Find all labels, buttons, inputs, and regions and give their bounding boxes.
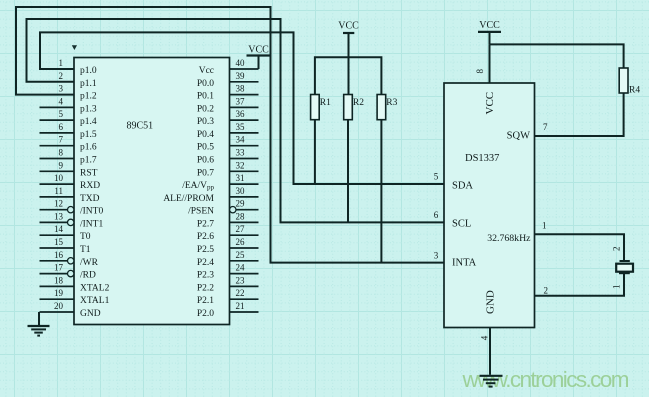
svg-text:26: 26 [236,237,246,247]
svg-text:20: 20 [54,301,64,311]
svg-text:3: 3 [59,84,64,94]
svg-text:37: 37 [236,96,246,106]
pin 37 wire (P0.2) [230,106,259,108]
svg-text:/RD: /RD [80,271,96,281]
pin 39 wire (P0.0) [230,81,259,83]
svg-text:16: 16 [54,250,64,260]
svg-text:4: 4 [480,335,490,340]
svg-text:RXD: RXD [80,181,100,191]
svg-text:3: 3 [434,251,439,261]
svg-text:P2.6: P2.6 [197,232,214,242]
svg-text:p1.3: p1.3 [80,104,97,114]
wire VCC rail [315,57,382,94]
svg-text:TXD: TXD [80,194,100,204]
pin 2 wire to crystal [535,273,625,295]
ground (DS1337 pin 4) [480,375,503,377]
svg-text:15: 15 [54,237,64,247]
pin 38 wire (P0.1) [230,94,259,96]
pin 36 wire (P0.3) [230,119,259,121]
svg-text:1: 1 [59,58,64,68]
svg-text:/EA/Vpp: /EA/Vpp [182,181,214,192]
svg-text:21: 21 [236,301,245,311]
svg-text:11: 11 [54,186,63,196]
pin 15 wire (T1) [40,247,75,249]
svg-text:p1.7: p1.7 [80,156,97,166]
svg-text:17: 17 [54,263,64,273]
ground (89C51 GND pin 20) [38,312,40,326]
svg-text:7: 7 [543,122,548,132]
svg-text:P2.2: P2.2 [197,283,214,293]
svg-text:p1.5: p1.5 [80,130,97,140]
pin 40 wire (Vcc) [230,68,259,70]
svg-text:24: 24 [236,263,246,273]
svg-text:Vcc: Vcc [199,66,214,76]
svg-text:19: 19 [54,288,64,298]
svg-text:P2.5: P2.5 [197,245,214,255]
svg-text:R2: R2 [353,98,364,108]
pin 25 wire (P2.4) [230,260,259,262]
svg-text:10: 10 [54,173,64,183]
pin 33 wire (P0.6) [230,158,259,160]
svg-text:2: 2 [612,247,622,252]
svg-text:P0.7: P0.7 [197,168,214,178]
svg-text:p1.4: p1.4 [80,117,97,127]
svg-text:39: 39 [236,71,246,81]
pin 13 wire (/INT1) [40,221,68,223]
svg-text:VCC: VCC [248,45,269,56]
pin 10 wire (RXD) [40,183,75,185]
svg-text:25: 25 [236,250,246,260]
svg-text:30: 30 [236,186,246,196]
pin 20 wire (GND) [40,311,75,313]
svg-text:5: 5 [59,109,64,119]
resistor R4 [619,68,628,93]
pin 8 wire (VCC top) [489,44,491,83]
pin 5 wire (p1.4) [40,119,75,121]
svg-text:9: 9 [59,160,64,170]
svg-text:p1.2: p1.2 [80,92,97,102]
svg-text:8: 8 [475,69,485,74]
pin 27 wire (P2.6) [230,234,259,236]
svg-text:33: 33 [236,148,246,158]
wire VCC to R4 [490,44,624,68]
pin 12 wire (/INT0) [40,209,68,211]
svg-text:P0.0: P0.0 [197,79,214,89]
pin 22 wire (P2.1) [230,298,259,300]
svg-text:28: 28 [236,211,246,221]
pin 9 wire (RST) [40,170,75,172]
svg-text:2: 2 [59,71,64,81]
svg-text:SQW: SQW [507,131,530,142]
svg-text:VCC: VCC [484,92,496,115]
wire R1 lead [314,120,316,184]
svg-text:P0.4: P0.4 [197,130,214,140]
svg-text:VCC: VCC [479,20,500,31]
svg-text:RST: RST [80,168,98,178]
wire p1.1 to SCL [27,19,445,222]
pin 11 wire (TXD) [40,196,75,198]
svg-text:R3: R3 [386,98,397,108]
pin 17 wire (/RD) [40,273,68,275]
svg-text:XTAL1: XTAL1 [80,296,110,306]
svg-text:13: 13 [54,211,64,221]
svg-text:31: 31 [236,173,245,183]
pin 21 wire (P2.0) [230,311,259,313]
svg-text:40: 40 [236,58,246,68]
svg-text:/INT1: /INT1 [80,219,103,229]
pin 4 wire (GND bottom) [489,328,491,375]
svg-text:T0: T0 [80,232,91,242]
pin 29 wire (/PSEN) [236,209,258,211]
svg-text:p1.6: p1.6 [80,143,97,153]
svg-text:12: 12 [54,199,63,209]
pin 23 wire (P2.2) [230,285,259,287]
svg-text:P0.3: P0.3 [197,117,214,127]
svg-text:35: 35 [236,122,246,132]
svg-text:32: 32 [236,160,245,170]
pin 7 wire SQW to R4 [535,93,624,136]
svg-text:27: 27 [236,224,246,234]
svg-text:P0.1: P0.1 [197,92,214,102]
svg-text:p1.0: p1.0 [80,66,97,76]
svg-text:R4: R4 [629,86,640,96]
svg-text:XTAL2: XTAL2 [80,283,110,293]
pin 8 wire (p1.7) [40,158,75,160]
svg-text:P0.2: P0.2 [197,104,214,114]
pin 16 wire (/WR) [40,260,68,262]
svg-text:P2.7: P2.7 [197,219,214,229]
svg-text:14: 14 [54,224,64,234]
pin 19 wire (XTAL1) [40,298,75,300]
svg-text:SCL: SCL [452,219,471,230]
svg-text:P2.0: P2.0 [197,309,214,319]
svg-text:29: 29 [236,199,246,209]
svg-text:/PSEN: /PSEN [188,207,214,217]
pin 4 wire (p1.3) [40,106,75,108]
svg-text:GND: GND [80,309,101,319]
svg-text:18: 18 [54,275,64,285]
svg-text:p1.1: p1.1 [80,79,97,89]
svg-text:DS1337: DS1337 [465,153,499,164]
pin 26 wire (P2.5) [230,247,259,249]
svg-text:R1: R1 [320,98,331,108]
svg-text:SDA: SDA [452,181,473,192]
svg-text:P2.3: P2.3 [197,271,214,281]
wire R2 lead [347,120,349,223]
svg-text:2: 2 [544,286,549,296]
pin 35 wire (P0.4) [230,132,259,134]
pin 1 wire to crystal [535,234,625,260]
svg-text:P2.1: P2.1 [197,296,214,306]
pin 32 wire (P0.7) [230,170,259,172]
pin 28 wire (P2.7) [230,221,259,223]
wire R3 lead [380,120,382,263]
pin 30 wire (ALE//PROM) [230,196,259,198]
svg-text:1: 1 [612,285,622,290]
svg-text:P2.4: P2.4 [197,258,214,268]
resistor R1 [311,95,320,120]
pin 6 wire (p1.5) [40,132,75,134]
pin 14 wire (T0) [40,234,75,236]
svg-text:P0.6: P0.6 [197,156,214,166]
svg-text:ALE//PROM: ALE//PROM [163,194,214,204]
svg-text:/WR: /WR [80,258,99,268]
svg-text:6: 6 [434,210,439,220]
pin-1 marker triangle [72,45,77,50]
svg-text:5: 5 [434,172,439,182]
wire p1.2 to INTA [16,7,444,263]
pin 7 wire (p1.6) [40,145,75,147]
svg-text:P0.5: P0.5 [197,143,214,153]
svg-text:4: 4 [59,96,64,106]
svg-text:38: 38 [236,84,246,94]
svg-text:22: 22 [236,288,245,298]
svg-text:89C51: 89C51 [127,121,154,132]
svg-text:GND: GND [485,290,497,314]
IC U1 89C51 [74,58,230,325]
svg-text:23: 23 [236,275,246,285]
svg-text:VCC: VCC [338,21,359,32]
resistor R3 [377,95,386,120]
svg-text:8: 8 [59,148,64,158]
svg-text:/INT0: /INT0 [80,207,103,217]
svg-text:7: 7 [59,135,64,145]
pin 18 wire (XTAL2) [40,285,75,287]
svg-text:INTA: INTA [452,258,477,269]
resistor R2 [344,95,353,120]
svg-text:36: 36 [236,109,246,119]
wire p1.0 to SDA [40,32,444,184]
pin 31 wire (/EA/Vpp) [230,183,259,185]
pin 34 wire (P0.5) [230,145,259,147]
svg-text:T1: T1 [80,245,91,255]
svg-text:1: 1 [542,221,547,231]
pin 24 wire (P2.3) [230,273,259,275]
svg-text:32.768kHz: 32.768kHz [487,233,531,244]
crystal Y1 32.768kHz [620,260,630,262]
svg-text:6: 6 [59,122,64,132]
IC U2 DS1337 [444,83,535,328]
svg-text:34: 34 [236,135,246,145]
